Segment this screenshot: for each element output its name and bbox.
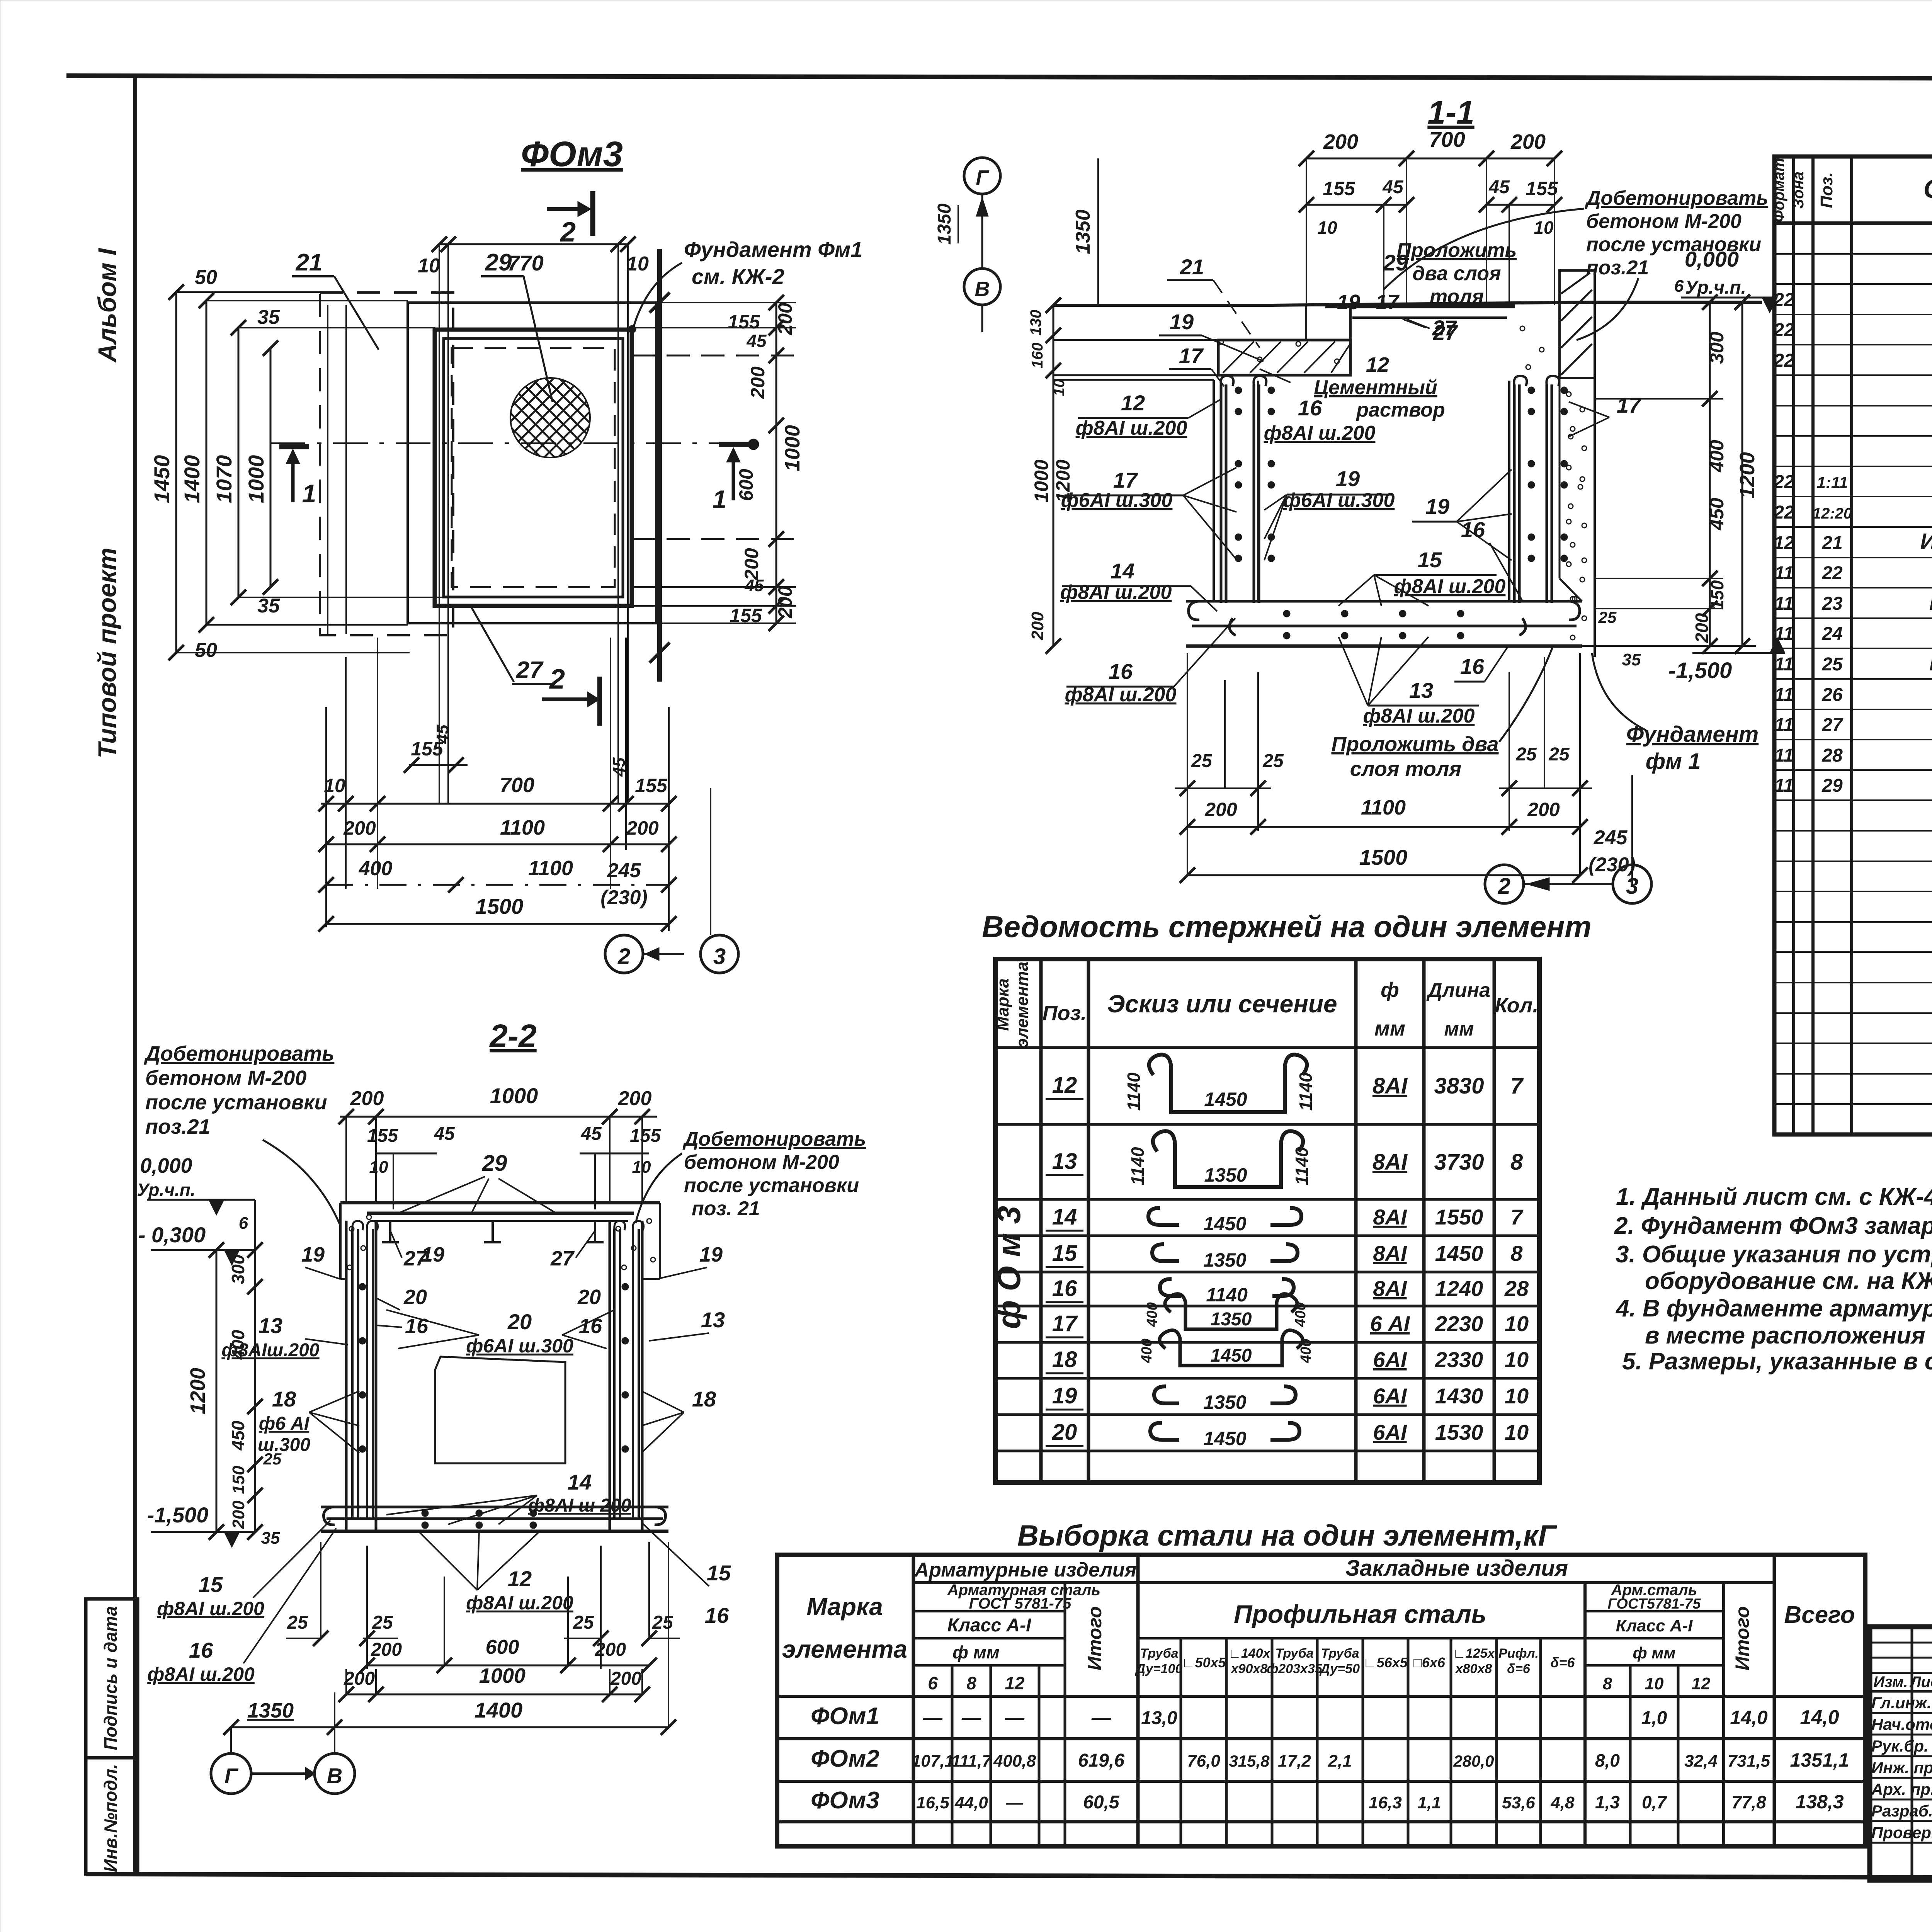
svg-text:8: 8 xyxy=(1603,1674,1612,1693)
section 1-1 level -1.500 xyxy=(1668,638,1785,683)
svg-text:Гл.инж.пр.: Гл.инж.пр. xyxy=(1871,1694,1932,1712)
svg-text:13: 13 xyxy=(1052,1149,1077,1174)
section 1-1 center rebar labels xyxy=(1264,291,1642,727)
svg-text:ф8АІ ш.200: ф8АІ ш.200 xyxy=(1394,575,1506,598)
section 2-2 left dim columns xyxy=(186,1200,282,1548)
svg-text:1,3: 1,3 xyxy=(1595,1792,1620,1812)
svg-text:в месте расположения отверс: в месте расположения отверстия. xyxy=(1645,1322,1932,1349)
svg-text:3730: 3730 xyxy=(1434,1150,1484,1175)
svg-text:6АІ: 6АІ xyxy=(1373,1420,1407,1444)
svg-text:Изм.: Изм. xyxy=(1873,1673,1908,1690)
svg-text:619,6: 619,6 xyxy=(1078,1750,1124,1771)
svg-text:1200: 1200 xyxy=(1736,452,1759,498)
svg-text:15: 15 xyxy=(707,1561,731,1585)
svg-text:21: 21 xyxy=(296,249,323,276)
svg-text:16,3: 16,3 xyxy=(1369,1793,1402,1812)
svg-text:Добетонировать: Добетонировать xyxy=(682,1128,866,1150)
svg-text:200: 200 xyxy=(610,1668,641,1689)
svg-text:—: — xyxy=(923,1707,943,1728)
plan: Фм1 column edge lines xyxy=(327,305,328,634)
vedomost rows data xyxy=(1046,1054,1529,1449)
svg-text:6АІ: 6АІ xyxy=(1373,1384,1407,1408)
svg-text:2: 2 xyxy=(617,944,630,969)
svg-text:ф8АІ ш 200: ф8АІ ш 200 xyxy=(528,1495,631,1516)
svg-text:Фундамент: Фундамент xyxy=(1626,722,1759,747)
svg-text:1140: 1140 xyxy=(1296,1072,1316,1111)
svg-text:Типовой проект: Типовой проект xyxy=(93,548,121,759)
svg-text:150: 150 xyxy=(229,1466,248,1494)
svg-text:∟56х5: ∟56х5 xyxy=(1363,1655,1408,1670)
svg-text:-1,500: -1,500 xyxy=(147,1503,209,1527)
plan: section cut 1 arrows xyxy=(279,439,759,514)
svg-text:17: 17 xyxy=(1617,393,1642,417)
section 1-1 left hatched slab xyxy=(1053,305,1350,380)
svg-text:13: 13 xyxy=(1409,678,1433,702)
svg-text:138,3: 138,3 xyxy=(1795,1791,1844,1813)
svg-text:770: 770 xyxy=(507,251,543,275)
svg-text:22: 22 xyxy=(1773,472,1794,492)
svg-text:50: 50 xyxy=(195,266,217,289)
svg-text:155: 155 xyxy=(1323,178,1355,199)
plan: step outline rectangle xyxy=(408,303,656,623)
svg-text:11: 11 xyxy=(1774,715,1794,735)
svg-text:200: 200 xyxy=(618,1087,652,1110)
svg-text:Цементный: Цементный xyxy=(1314,376,1437,399)
svg-text:∟125х: ∟125х xyxy=(1453,1646,1496,1661)
svg-text:18: 18 xyxy=(272,1387,296,1411)
svg-text:20: 20 xyxy=(403,1286,427,1309)
svg-text:2230: 2230 xyxy=(1435,1311,1483,1336)
svg-text:1400: 1400 xyxy=(180,455,204,503)
svg-text:ф8АІ ш.200: ф8АІ ш.200 xyxy=(1065,684,1177,706)
svg-text:ф8АІ ш.200: ф8АІ ш.200 xyxy=(1264,422,1376,444)
title block xyxy=(1870,1627,1932,1880)
plan: section cut line 2 (top) xyxy=(547,191,593,248)
svg-text:1. Данный лист см. с КЖ-4 ÷ КЖ: 1. Данный лист см. с КЖ-4 ÷ КЖ-6. xyxy=(1616,1184,1932,1210)
svg-text:21: 21 xyxy=(1821,533,1842,553)
svg-text:1000: 1000 xyxy=(1031,459,1052,502)
svg-text:Нач.отд.: Нач.отд. xyxy=(1871,1715,1932,1733)
svg-text:Труба: Труба xyxy=(1275,1646,1313,1661)
vedomost table grid xyxy=(995,959,1539,1483)
svg-text:1,1: 1,1 xyxy=(1417,1793,1441,1812)
svg-text:27: 27 xyxy=(1432,316,1458,340)
svg-text:Выборка стали на один элемент: Выборка стали на один элемент,кГ xyxy=(1017,1519,1558,1552)
svg-text:160: 160 xyxy=(1029,343,1046,369)
svg-text:32,4: 32,4 xyxy=(1684,1752,1718,1770)
svg-text:элемента: элемента xyxy=(1013,962,1032,1048)
svg-text:1100: 1100 xyxy=(1361,796,1406,819)
svg-text:1350: 1350 xyxy=(1203,1391,1246,1413)
svg-text:21: 21 xyxy=(1180,255,1204,279)
section 1-1 axis circles 2 3 xyxy=(1485,865,1651,903)
svg-text:2-2: 2-2 xyxy=(489,1018,536,1054)
section 2-2 bottom dims xyxy=(223,1542,680,1753)
section 2-2 left leader text Добетонировать xyxy=(144,1042,340,1225)
section 1-1 right dims xyxy=(1582,294,1759,669)
plan: section 1 cut dash line xyxy=(270,442,750,444)
svg-text:ф8АІ ш.200: ф8АІ ш.200 xyxy=(157,1598,264,1619)
svg-text:18: 18 xyxy=(1052,1347,1077,1372)
svg-text:25: 25 xyxy=(1821,654,1843,675)
section 2-2 rebar labels center/right xyxy=(377,1243,731,1628)
svg-text:1100: 1100 xyxy=(500,816,545,839)
svg-text:1550: 1550 xyxy=(1435,1205,1483,1229)
section 1-1 bottom dims xyxy=(1175,653,1636,885)
svg-text:200: 200 xyxy=(371,1639,402,1660)
svg-text:Рифл.: Рифл. xyxy=(1498,1646,1539,1661)
svg-text:1:11: 1:11 xyxy=(1817,473,1848,492)
svg-text:Итого: Итого xyxy=(1084,1606,1105,1670)
svg-text:700: 700 xyxy=(500,774,534,797)
svg-text:2: 2 xyxy=(549,664,565,695)
svg-text:Лист: Лист xyxy=(1909,1673,1932,1690)
svg-text:17: 17 xyxy=(1052,1311,1078,1336)
svg-text:Поз.: Поз. xyxy=(1817,172,1836,208)
svg-text:13: 13 xyxy=(701,1308,725,1332)
svg-text:200: 200 xyxy=(595,1639,626,1660)
svg-text:2. Фундамент ФОм3 замаркирован: 2. Фундамент ФОм3 замаркирован на КЖ-3. xyxy=(1614,1213,1932,1239)
svg-text:200: 200 xyxy=(1204,799,1237,820)
svg-text:200: 200 xyxy=(626,817,659,839)
svg-text:10: 10 xyxy=(626,253,649,275)
svg-text:10: 10 xyxy=(1505,1311,1529,1336)
svg-text:ф мм: ф мм xyxy=(952,1642,1000,1662)
specification table header texts xyxy=(1770,158,1932,223)
svg-text:200: 200 xyxy=(343,817,376,839)
svg-text:12: 12 xyxy=(508,1566,532,1591)
svg-text:450: 450 xyxy=(228,1420,248,1451)
svg-text:1070: 1070 xyxy=(212,455,236,503)
vyborka header texts xyxy=(782,1556,1855,1693)
plan: axis circles 2 and 3 xyxy=(605,889,738,973)
svg-text:1000: 1000 xyxy=(479,1664,526,1687)
svg-text:два слоя: два слоя xyxy=(1412,262,1501,285)
svg-text:400: 400 xyxy=(1293,1302,1309,1327)
svg-text:245: 245 xyxy=(1594,827,1628,849)
svg-text:14,0: 14,0 xyxy=(1730,1707,1768,1728)
svg-text:1: 1 xyxy=(302,479,316,508)
svg-text:19: 19 xyxy=(1052,1383,1077,1408)
svg-text:200: 200 xyxy=(747,366,769,399)
svg-text:1500: 1500 xyxy=(1359,845,1408,869)
svg-text:КЖИ-НМ2;НМ3: КЖИ-НМ2;НМ3 xyxy=(1929,590,1932,615)
svg-text:ф203х35: ф203х35 xyxy=(1267,1662,1323,1676)
svg-text:Арматурные изделия: Арматурные изделия xyxy=(914,1559,1137,1581)
svg-text:δ=6: δ=6 xyxy=(1550,1655,1575,1670)
svg-text:27: 27 xyxy=(1821,715,1844,735)
svg-text:25: 25 xyxy=(1262,751,1284,771)
svg-text:1350: 1350 xyxy=(247,1699,294,1722)
svg-text:200: 200 xyxy=(1510,130,1546,153)
svg-text:6: 6 xyxy=(239,1214,248,1233)
svg-text:1,0: 1,0 xyxy=(1641,1708,1667,1728)
axis circles Г and В (top) xyxy=(934,158,1000,332)
svg-text:Инв.№подл.: Инв.№подл. xyxy=(100,1764,121,1872)
svg-text:Кол.: Кол. xyxy=(1495,994,1539,1017)
plan: main pit rectangle double line xyxy=(435,330,632,606)
svg-text:10: 10 xyxy=(418,255,440,277)
plan: section cut line 2 (bottom) xyxy=(542,664,600,726)
plan: leader 27 xyxy=(471,606,554,684)
svg-text:Добетонировать: Добетонировать xyxy=(144,1042,334,1065)
specification table rows xyxy=(1773,255,1932,922)
svg-text:ф8АІ ш.200: ф8АІ ш.200 xyxy=(466,1592,573,1614)
svg-text:Зона: Зона xyxy=(1790,172,1807,209)
svg-text:7: 7 xyxy=(1510,1205,1524,1229)
svg-text:16: 16 xyxy=(1109,659,1133,684)
svg-text:ГОСТ5781-75: ГОСТ5781-75 xyxy=(1607,1596,1701,1612)
svg-text:25: 25 xyxy=(1548,744,1570,765)
svg-text:15: 15 xyxy=(199,1572,223,1597)
svg-text:35: 35 xyxy=(261,1529,280,1548)
svg-text:0,7: 0,7 xyxy=(1642,1792,1667,1812)
svg-text:155: 155 xyxy=(630,1126,661,1146)
svg-text:10: 10 xyxy=(1505,1384,1529,1408)
svg-text:20: 20 xyxy=(507,1310,532,1334)
svg-text:1430: 1430 xyxy=(1435,1384,1483,1408)
svg-text:х80х8: х80х8 xyxy=(1455,1662,1492,1676)
svg-text:Ур.ч.п.: Ур.ч.п. xyxy=(137,1180,195,1200)
svg-text:17: 17 xyxy=(1113,468,1138,492)
svg-text:155: 155 xyxy=(730,605,762,626)
svg-text:200: 200 xyxy=(350,1087,384,1110)
svg-text:107,1: 107,1 xyxy=(912,1752,954,1770)
vedomost header texts xyxy=(993,962,1538,1048)
svg-text:700: 700 xyxy=(1429,127,1465,151)
svg-text:245: 245 xyxy=(607,859,641,882)
section 1-1 Фундамент фм1 xyxy=(1592,653,1759,774)
svg-text:11: 11 xyxy=(1774,594,1794,614)
svg-text:23: 23 xyxy=(1821,594,1843,614)
svg-text:300: 300 xyxy=(228,1254,248,1284)
svg-text:1200: 1200 xyxy=(186,1368,209,1414)
svg-text:11: 11 xyxy=(1774,563,1794,583)
svg-text:1140: 1140 xyxy=(1206,1284,1248,1306)
section 2-2 leader 29 xyxy=(398,1151,556,1213)
svg-text:315,8: 315,8 xyxy=(1229,1752,1270,1770)
svg-text:11: 11 xyxy=(1774,776,1794,796)
svg-text:раствор: раствор xyxy=(1355,399,1445,421)
svg-text:мм: мм xyxy=(1444,1018,1474,1040)
svg-text:200: 200 xyxy=(774,586,796,619)
svg-text:8: 8 xyxy=(966,1673,976,1693)
svg-text:1: 1 xyxy=(713,485,727,514)
svg-text:12: 12 xyxy=(1005,1673,1025,1693)
svg-text:400: 400 xyxy=(1139,1338,1155,1363)
svg-text:15: 15 xyxy=(1418,548,1442,572)
section 1-1 leader text Проложить два слоя толя xyxy=(1397,239,1517,308)
svg-text:10: 10 xyxy=(1505,1347,1529,1372)
svg-text:1450: 1450 xyxy=(1211,1345,1252,1366)
svg-text:ф6АІ ш.300: ф6АІ ш.300 xyxy=(1061,489,1173,512)
svg-text:Подпись и дата: Подпись и дата xyxy=(100,1606,121,1750)
svg-text:∟50х5: ∟50х5 xyxy=(1181,1655,1226,1670)
svg-text:155: 155 xyxy=(367,1126,398,1146)
svg-text:8: 8 xyxy=(1510,1150,1523,1175)
section 2-2 concrete outline xyxy=(340,1203,660,1279)
svg-text:400,8: 400,8 xyxy=(993,1752,1036,1770)
svg-text:18: 18 xyxy=(692,1387,716,1411)
svg-text:19: 19 xyxy=(301,1243,325,1266)
svg-text:200: 200 xyxy=(1323,130,1358,153)
svg-text:ф6АІ ш.300: ф6АІ ш.300 xyxy=(466,1335,573,1357)
svg-text:Класс А-І: Класс А-І xyxy=(947,1615,1032,1636)
section 2-2 bottom labels xyxy=(147,1520,573,1685)
svg-text:см. КЖ-2: см. КЖ-2 xyxy=(692,264,784,289)
svg-text:1140: 1140 xyxy=(1124,1072,1144,1111)
svg-text:16: 16 xyxy=(1298,396,1322,420)
svg-text:поз.21: поз.21 xyxy=(145,1115,211,1138)
plan: right dimension column xyxy=(632,295,804,631)
svg-text:1450: 1450 xyxy=(1204,1088,1247,1110)
svg-text:45: 45 xyxy=(433,724,452,744)
svg-text:10: 10 xyxy=(1645,1674,1664,1693)
svg-text:45: 45 xyxy=(1488,177,1510,197)
svg-text:13: 13 xyxy=(259,1313,282,1338)
svg-text:200: 200 xyxy=(774,303,796,335)
section 1-1 pit walls with rebar xyxy=(1221,376,1568,603)
section 1-1 top dimensions xyxy=(1299,127,1562,305)
svg-text:1400: 1400 xyxy=(474,1698,523,1722)
svg-text:ф6АІ ш.300: ф6АІ ш.300 xyxy=(1283,489,1395,512)
svg-text:22: 22 xyxy=(1773,290,1794,310)
svg-text:19: 19 xyxy=(1337,291,1360,314)
svg-text:Всего: Всего xyxy=(1784,1602,1855,1628)
svg-text:60,5: 60,5 xyxy=(1083,1792,1120,1813)
plan: dashed foundation Фм1 rectangle xyxy=(320,293,453,635)
section 2-2 opening rectangle xyxy=(435,1357,565,1463)
svg-text:22: 22 xyxy=(1821,563,1843,583)
svg-text:25: 25 xyxy=(287,1612,308,1633)
svg-text:2,1: 2,1 xyxy=(1328,1752,1352,1770)
svg-text:25: 25 xyxy=(1515,744,1537,765)
section 1-1 left dim col xyxy=(1027,158,1098,654)
svg-text:200: 200 xyxy=(229,1500,248,1529)
svg-text:1450: 1450 xyxy=(1203,1428,1246,1449)
svg-text:44,0: 44,0 xyxy=(954,1793,988,1812)
svg-text:15: 15 xyxy=(1052,1241,1077,1266)
svg-text:—: — xyxy=(1006,1793,1024,1812)
svg-text:200: 200 xyxy=(1527,799,1560,820)
plan: leader 29 xyxy=(481,249,553,402)
notes text block xyxy=(1614,1184,1932,1375)
svg-text:3830: 3830 xyxy=(1434,1073,1484,1099)
section 1-1 leader text Добетонировать xyxy=(1383,187,1768,340)
svg-text:Труба: Труба xyxy=(1140,1646,1178,1661)
svg-text:1450: 1450 xyxy=(150,455,174,503)
section 2-2 walls with rebar xyxy=(346,1221,644,1531)
svg-text:22: 22 xyxy=(1773,320,1794,340)
svg-text:11: 11 xyxy=(1774,685,1794,705)
svg-text:400: 400 xyxy=(1706,440,1728,473)
svg-text:после установки: после установки xyxy=(145,1091,327,1114)
svg-text:600: 600 xyxy=(735,469,757,501)
svg-text:77,8: 77,8 xyxy=(1731,1792,1766,1812)
svg-text:Г: Г xyxy=(224,1764,239,1788)
svg-text:В: В xyxy=(975,277,990,301)
svg-text:Проложить: Проложить xyxy=(1397,239,1517,262)
section 2-2 bottom slab xyxy=(321,1507,668,1531)
svg-text:16: 16 xyxy=(579,1315,602,1338)
svg-text:7: 7 xyxy=(1510,1073,1524,1099)
svg-text:19: 19 xyxy=(421,1243,444,1266)
svg-text:∟140х: ∟140х xyxy=(1228,1646,1271,1661)
svg-text:1351,1: 1351,1 xyxy=(1790,1749,1849,1771)
svg-text:3: 3 xyxy=(1626,874,1638,899)
svg-text:8,0: 8,0 xyxy=(1595,1750,1620,1770)
svg-text:2330: 2330 xyxy=(1435,1347,1483,1372)
svg-text:Ведомость стержней на один эле: Ведомость стержней на один элемент xyxy=(982,910,1591,944)
svg-text:ф8АІ ш.200: ф8АІ ш.200 xyxy=(1060,581,1172,604)
svg-text:14,0: 14,0 xyxy=(1800,1706,1839,1729)
svg-text:Поз.: Поз. xyxy=(1043,1002,1087,1025)
svg-text:ф8АІш.200: ф8АІш.200 xyxy=(221,1340,320,1361)
svg-text:12: 12 xyxy=(1774,533,1794,553)
svg-text:х90х8: х90х8 xyxy=(1230,1662,1268,1676)
svg-text:8АІ: 8АІ xyxy=(1372,1150,1408,1175)
svg-text:155: 155 xyxy=(1526,178,1558,199)
svg-text:Арх. пр.: Арх. пр. xyxy=(1871,1780,1932,1798)
section 1-1 bottom slab xyxy=(1186,601,1582,646)
svg-text:29: 29 xyxy=(1383,250,1408,276)
svg-text:1-1: 1-1 xyxy=(1427,94,1474,131)
plan: right axis thick line xyxy=(650,249,670,682)
svg-text:1350: 1350 xyxy=(1072,209,1094,254)
svg-text:1350: 1350 xyxy=(1203,1249,1246,1271)
left margin stamp box: Инв.№подл. xyxy=(86,1758,138,1874)
svg-text:450: 450 xyxy=(1706,498,1728,531)
svg-text:25: 25 xyxy=(573,1612,594,1633)
svg-text:155: 155 xyxy=(635,775,668,796)
svg-text:КЖИ-НМ4;НМ5: КЖИ-НМ4;НМ5 xyxy=(1929,650,1932,675)
svg-text:45: 45 xyxy=(580,1124,602,1144)
svg-text:10: 10 xyxy=(1051,379,1068,396)
svg-text:6АІ: 6АІ xyxy=(1373,1347,1407,1372)
svg-text:1350: 1350 xyxy=(1204,1164,1247,1186)
svg-text:Формат: Формат xyxy=(1770,158,1787,223)
svg-text:16: 16 xyxy=(189,1638,213,1662)
svg-text:1350: 1350 xyxy=(1211,1309,1252,1330)
svg-text:бетоном М-200: бетоном М-200 xyxy=(145,1066,306,1090)
svg-text:ФОм1: ФОм1 xyxy=(811,1703,879,1730)
svg-text:Марка: Марка xyxy=(993,978,1012,1031)
svg-text:6: 6 xyxy=(1674,277,1684,296)
svg-text:Провер.: Провер. xyxy=(1871,1823,1932,1842)
svg-text:10: 10 xyxy=(324,775,345,796)
svg-text:Ду=100: Ду=100 xyxy=(1135,1662,1183,1676)
section 2-2 axis circles Г В xyxy=(211,1753,355,1794)
svg-text:Класс А-І: Класс А-І xyxy=(1616,1616,1693,1635)
svg-text:600: 600 xyxy=(486,1636,519,1658)
svg-text:731,5: 731,5 xyxy=(1728,1752,1770,1770)
plan: leader 21 xyxy=(292,249,379,350)
svg-text:4. В фундаменте арматуру поз.1: 4. В фундаменте арматуру поз.12,16,17,19… xyxy=(1615,1295,1932,1322)
svg-text:δ=6: δ=6 xyxy=(1507,1662,1531,1676)
svg-text:200: 200 xyxy=(1028,612,1047,641)
svg-text:бетоном М-200: бетоном М-200 xyxy=(1586,210,1742,233)
vyborka data rows xyxy=(811,1703,1849,1814)
svg-text:2: 2 xyxy=(560,217,576,248)
svg-text:Рук.бр.: Рук.бр. xyxy=(1871,1737,1929,1755)
svg-text:ш.300: ш.300 xyxy=(258,1435,310,1455)
svg-text:16: 16 xyxy=(1461,517,1485,542)
svg-text:1530: 1530 xyxy=(1435,1420,1483,1444)
title block texts xyxy=(1871,1639,1932,1881)
svg-text:8: 8 xyxy=(1510,1241,1523,1265)
svg-text:16: 16 xyxy=(705,1603,729,1628)
svg-text:10: 10 xyxy=(1534,218,1554,238)
